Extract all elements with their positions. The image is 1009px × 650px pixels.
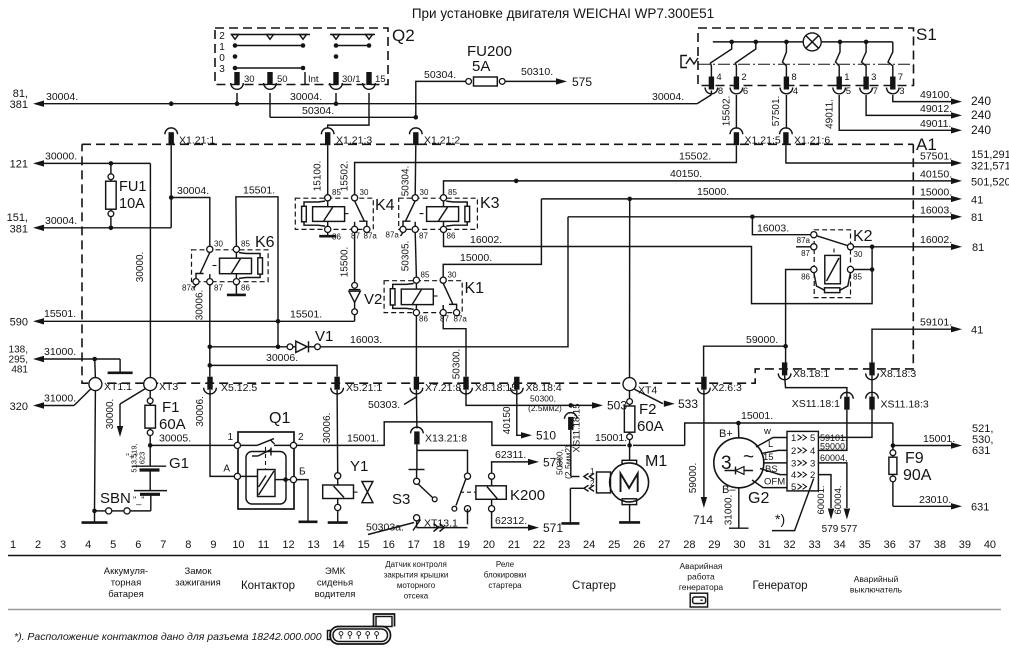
wire XS11.18:1 down: [818, 410, 847, 451]
svg-text:15000.: 15000.: [697, 186, 729, 198]
S1 coupling dash-dot: [698, 63, 914, 65]
svg-text:10: 10: [232, 539, 244, 551]
connector X8.18:1: [782, 362, 787, 375]
svg-text:2: 2: [219, 31, 225, 42]
svg-text:50300.: 50300.: [451, 349, 462, 380]
svg-text:X1.21:5: X1.21:5: [745, 135, 781, 147]
svg-text:w: w: [763, 426, 771, 437]
Q1 coil: [258, 470, 276, 497]
svg-text:31000.: 31000.: [724, 495, 735, 526]
wire 16003 to K2.87a: [752, 217, 810, 235]
svg-text:X13.21:8: X13.21:8: [425, 433, 467, 445]
wire 50303: [415, 390, 418, 429]
wire 15502 to K4.30: [355, 145, 737, 194]
svg-text:16: 16: [383, 539, 395, 551]
connector X13.21:8: [414, 431, 419, 444]
K2 pin 87: [811, 244, 817, 250]
relay K200 contact: [464, 473, 470, 479]
S1 terminal 5 pin 3/7: [863, 77, 868, 90]
svg-text:закрытия крышки: закрытия крышки: [384, 571, 449, 580]
K2 link dash: [833, 249, 835, 256]
wire XT1.1 down: [94, 391, 97, 511]
svg-text:BS: BS: [765, 464, 778, 475]
svg-text:49011.: 49011.: [920, 118, 951, 130]
connector XT13.1: [416, 521, 418, 528]
K1 pin 87: [440, 310, 446, 316]
K3 pin 87a: [400, 226, 406, 232]
svg-text:62311.: 62311.: [495, 449, 526, 461]
wire B+ to G2: [737, 423, 739, 438]
svg-text:87a: 87a: [386, 231, 400, 240]
svg-text:714: 714: [693, 513, 713, 527]
wire 59000 to X2.6:3: [704, 346, 786, 376]
wire 15501 to K6.85: [236, 197, 278, 321]
svg-text:5: 5: [846, 86, 851, 97]
wire 50300 X8.18:15 to 503: [466, 390, 592, 406]
svg-text:1: 1: [227, 432, 233, 443]
svg-text:5: 5: [110, 539, 116, 551]
svg-text:2: 2: [741, 72, 746, 83]
S1 terminal 2 pin 2/6: [734, 77, 739, 90]
svg-text:батарея: батарея: [108, 589, 144, 600]
svg-text:510: 510: [536, 429, 556, 443]
svg-text:(2.5мм2): (2.5мм2): [528, 403, 562, 413]
wire 50300 to M1 pin1: [570, 430, 572, 477]
svg-text:30004.: 30004.: [177, 185, 209, 197]
svg-text:26: 26: [633, 539, 645, 551]
ground M1: [629, 505, 631, 523]
bottom rule 2: [8, 609, 1001, 611]
svg-text:XS11.18:3: XS11.18:3: [881, 399, 929, 411]
svg-text:X8.18:1: X8.18:1: [793, 368, 829, 380]
connector drawing 18242: [330, 627, 391, 645]
K6 coil and resistor: [220, 258, 252, 274]
svg-text:торная: торная: [111, 578, 142, 589]
svg-text:K3: K3: [480, 195, 500, 212]
svg-text:1: 1: [590, 467, 595, 476]
svg-text:30006.: 30006.: [266, 352, 298, 364]
wire 30000: [33, 160, 44, 166]
Q1 link dash: [265, 447, 267, 469]
svg-text:генератора: генератора: [679, 582, 724, 592]
wire X8.18:1 to XS11.18:1: [785, 375, 847, 396]
svg-text:стартера: стартера: [488, 581, 522, 590]
svg-text:XT1.1: XT1.1: [104, 381, 132, 393]
unit A1 dashed box: [82, 144, 913, 383]
svg-text:87a: 87a: [364, 232, 378, 241]
switch Q2 box: [215, 28, 388, 85]
wire 15100 X1.21:3 to K4.85: [327, 145, 329, 195]
wire 15500 K4.87 to V2: [354, 233, 356, 283]
wire 57501 S1-3 to X1.21:6: [785, 95, 787, 129]
svg-text:16002.: 16002.: [470, 234, 502, 246]
wire 62312 output 571: [492, 512, 528, 528]
K4 switch blade: [355, 201, 365, 221]
K6 pin 30: [207, 246, 213, 252]
K2 pin 30: [847, 244, 853, 250]
Q1 pin B: [290, 477, 296, 483]
ground Q1.B: [297, 480, 308, 522]
svg-text:40150.: 40150.: [502, 404, 513, 435]
Q1 pin 2: [290, 442, 296, 448]
svg-text:50310.: 50310.: [521, 66, 553, 78]
relay K2 box: [814, 230, 850, 298]
K2 pin 86: [811, 266, 817, 272]
svg-text:36: 36: [884, 539, 896, 551]
svg-text:31: 31: [758, 539, 770, 551]
svg-text:K200: K200: [510, 487, 545, 504]
svg-text:15501.: 15501.: [243, 185, 275, 197]
wire 59000 down 714: [703, 390, 705, 497]
connector X1.21:2: [413, 132, 418, 145]
K6 pin87a stub: [194, 285, 197, 289]
svg-text:30006.: 30006.: [195, 396, 206, 427]
svg-text:240: 240: [971, 108, 991, 122]
svg-text:31000.: 31000.: [44, 393, 76, 405]
terminal XT4: [623, 378, 636, 391]
svg-text:моторного: моторного: [397, 581, 436, 590]
S1 switch blade 6: [888, 42, 893, 77]
svg-text:85: 85: [853, 273, 862, 282]
svg-text:FU1: FU1: [119, 179, 146, 195]
S1 switch blade 2: [735, 42, 755, 77]
svg-text:водителя: водителя: [315, 589, 356, 600]
svg-text:X1.21:3: X1.21:3: [336, 135, 372, 147]
connector X5.12.5: [207, 377, 212, 390]
G2 terminal OFM: [752, 480, 787, 488]
svg-text:Q2: Q2: [392, 26, 415, 45]
svg-text:1: 1: [844, 72, 849, 83]
K1 switch blade: [443, 283, 453, 304]
Q2 terminal 30/1: [333, 72, 338, 85]
svg-text:27: 27: [658, 539, 670, 551]
K3 link dash: [420, 213, 427, 215]
K2 switch blade: [817, 236, 848, 246]
svg-text:151,291,: 151,291,: [971, 149, 1009, 161]
Q2 row 3 contacts: [235, 67, 303, 69]
S1 internal bus: [713, 41, 893, 43]
svg-text:XS11.18:15: XS11.18:15: [572, 404, 583, 453]
wire 30006 line: [210, 365, 337, 376]
svg-text:X2.6:3: X2.6:3: [712, 382, 743, 394]
svg-text:57501.: 57501.: [920, 151, 952, 163]
starter M1: [629, 445, 631, 460]
K3 pin 86: [440, 226, 446, 232]
S1 terminal 1 pin 4/8: [709, 77, 714, 90]
S1 E-bracket: [681, 56, 687, 68]
svg-text:60004.: 60004.: [833, 485, 844, 514]
svg-text:15501.: 15501.: [44, 308, 76, 320]
K200 coil top pin: [489, 473, 495, 479]
ground at 31000: [119, 359, 121, 372]
K6 pin 87a: [193, 279, 199, 285]
svg-text:481: 481: [11, 365, 28, 376]
connector X1.21:1: [169, 132, 174, 145]
svg-text:"+": "+": [126, 452, 138, 462]
fuse F9: [890, 450, 896, 456]
svg-text:501,520: 501,520: [971, 177, 1009, 189]
svg-text:15502.: 15502.: [340, 161, 351, 192]
svg-text:16003.: 16003.: [350, 334, 382, 346]
wire 30004 lower-left: [33, 225, 44, 231]
svg-text:7: 7: [160, 539, 166, 551]
svg-text:2: 2: [791, 446, 796, 457]
K2 pin 87a: [811, 232, 817, 238]
wire 15502 S1-2 to X1.21:5: [735, 95, 737, 129]
svg-text:3: 3: [60, 539, 66, 551]
terminal XT1.1: [94, 359, 97, 378]
svg-text:выключатель: выключатель: [850, 585, 903, 595]
ground bottom left: [94, 511, 96, 523]
svg-text:571: 571: [543, 521, 563, 535]
wire 16003 V1 line: [321, 217, 569, 347]
svg-text:20: 20: [483, 539, 495, 551]
svg-text:V2: V2: [364, 291, 382, 308]
K2 coil leads: [814, 273, 825, 291]
connector XS11.18:3: [869, 397, 874, 410]
svg-text:30/1: 30/1: [342, 74, 361, 85]
wire 30006 X5.21:1 to Y1: [336, 390, 339, 473]
K6 switch blade: [200, 252, 210, 273]
diode V2: [352, 283, 358, 289]
svg-text:30000.: 30000.: [45, 151, 77, 163]
wire 533 output: [634, 389, 663, 404]
svg-text:151,: 151,: [7, 212, 28, 224]
svg-text:11: 11: [258, 539, 269, 551]
svg-text:30000.: 30000.: [135, 252, 146, 283]
svg-text:87: 87: [440, 315, 449, 324]
svg-text:59101.: 59101.: [920, 317, 952, 329]
wire K2.85 link: [854, 269, 873, 271]
wire 30000 XT3 tap: [120, 389, 145, 404]
svg-text:3: 3: [871, 72, 876, 83]
wire 40150: [444, 181, 952, 195]
svg-text:Замок: Замок: [185, 566, 213, 577]
wire 30004 branch to K6.30: [171, 198, 210, 247]
svg-text:Y1: Y1: [350, 458, 368, 475]
svg-text:3: 3: [899, 86, 904, 97]
K6 pin 85: [233, 246, 239, 252]
svg-text:16003.: 16003.: [757, 223, 789, 235]
K1 pin 86: [413, 310, 419, 316]
svg-text:86: 86: [801, 273, 810, 282]
wire 15000 to K1.30: [443, 199, 541, 277]
icon generator emergency: [690, 593, 707, 607]
svg-text:X5.12.5: X5.12.5: [221, 382, 257, 394]
K6 pin 86: [233, 279, 239, 285]
svg-text:3: 3: [219, 64, 225, 75]
starter M1 connector: [597, 472, 611, 493]
G2 pin block: [787, 431, 818, 491]
relay K1 box: [384, 281, 462, 313]
wire 30006 K6.87 to X5.12.5: [209, 285, 211, 377]
svg-text:15001.: 15001.: [595, 432, 627, 444]
svg-text:XT3: XT3: [159, 381, 178, 393]
G2 terminal BS: [760, 469, 787, 475]
svg-text:Аварийный: Аварийный: [854, 574, 899, 584]
svg-text:320: 320: [10, 401, 28, 413]
svg-text:30000.: 30000.: [105, 399, 116, 430]
wire 50304 from Q2-50: [269, 93, 271, 117]
wire 30004 main: [33, 101, 44, 107]
svg-text:F9: F9: [905, 450, 924, 467]
svg-text:60A: 60A: [637, 418, 664, 435]
svg-text:15000.: 15000.: [920, 187, 952, 199]
svg-text:K2: K2: [853, 228, 873, 245]
svg-text:3: 3: [810, 458, 815, 469]
svg-text:49011.: 49011.: [825, 99, 836, 129]
S1 switch blade 1: [710, 42, 731, 77]
wire M1 pin2 ground: [570, 487, 583, 489]
svg-text:XT4: XT4: [638, 385, 657, 397]
K6 link dash: [213, 265, 220, 267]
wire X13.21:8 down: [416, 444, 418, 450]
svg-text:S1: S1: [916, 25, 937, 44]
svg-text:15000.: 15000.: [460, 252, 492, 264]
wire 62311 output 571: [492, 462, 528, 473]
svg-text:30004.: 30004.: [45, 215, 77, 227]
svg-text:60A: 60A: [159, 416, 186, 433]
svg-text:отсека: отсека: [404, 592, 429, 601]
wire 15001 right part: [633, 444, 685, 446]
svg-text:X1.21:1: X1.21:1: [179, 135, 215, 147]
svg-text:M1: M1: [645, 453, 667, 470]
svg-text:30: 30: [854, 250, 863, 259]
svg-text:49012.: 49012.: [920, 103, 952, 115]
connector X5.21:1: [334, 377, 339, 390]
wire 16003 main: [568, 216, 951, 218]
K200 coil bottom pin: [489, 506, 495, 512]
svg-text:7: 7: [873, 86, 878, 97]
connector X8.18:15: [463, 377, 468, 390]
svg-text:"_": "_": [133, 495, 144, 505]
K1 pin 87a: [454, 310, 460, 316]
G2 terminal 15: [764, 462, 787, 464]
svg-text:15501.: 15501.: [290, 309, 322, 321]
svg-text:59000.: 59000.: [746, 334, 778, 346]
K2 pin87 tick: [796, 246, 811, 248]
relay K4 box: [295, 198, 373, 229]
svg-text:8: 8: [185, 539, 191, 551]
svg-text:G2: G2: [748, 490, 769, 507]
S1 switch blade 5: [862, 42, 867, 77]
svg-text:15001.: 15001.: [347, 433, 379, 445]
connector XS11.18:15: [568, 417, 573, 430]
svg-text:49100.: 49100.: [920, 89, 952, 101]
svg-text:50305.: 50305.: [401, 241, 412, 272]
svg-text:8: 8: [791, 72, 796, 83]
fuse FU200: [466, 79, 472, 85]
svg-text:575: 575: [572, 75, 592, 89]
wire 50304 to FU200: [416, 81, 466, 117]
svg-text:16003.: 16003.: [920, 205, 952, 217]
svg-text:38: 38: [934, 539, 946, 551]
wire 59000 K2.86: [786, 270, 811, 367]
relay K200 coil: [476, 486, 506, 500]
K1 pin 30: [440, 277, 446, 283]
connector X8.18:3: [869, 362, 874, 375]
svg-text:86: 86: [447, 232, 456, 241]
wire 30000 vertical to XT3: [149, 163, 151, 377]
svg-text:50303а.: 50303а.: [366, 522, 404, 534]
svg-text:4: 4: [793, 86, 798, 97]
wire 50305 K3.87 to K1.85: [415, 233, 416, 278]
svg-text:50: 50: [277, 74, 288, 85]
wire 49100 S1-6: [893, 95, 951, 102]
svg-text:15: 15: [375, 74, 386, 85]
K3 pin 87: [412, 226, 418, 232]
wire XS11.18:3 down: [818, 410, 872, 438]
wire 15501 main: [33, 318, 44, 324]
wire 31000 lower: [33, 402, 44, 408]
svg-text:3: 3: [791, 458, 796, 469]
svg-text:50304.: 50304.: [302, 105, 334, 117]
svg-text:SBN: SBN: [100, 490, 131, 507]
svg-text:Контактор: Контактор: [241, 580, 295, 592]
svg-text:K6: K6: [255, 234, 275, 251]
fuse FU1: [110, 163, 112, 173]
svg-text:Реле: Реле: [496, 560, 515, 569]
svg-text:2: 2: [35, 539, 41, 551]
Q1 pin 1: [234, 442, 240, 448]
svg-text:8: 8: [718, 86, 723, 97]
svg-text:30: 30: [360, 188, 369, 197]
svg-text:2: 2: [590, 479, 595, 488]
wire to K200 contact: [417, 450, 468, 473]
svg-text:Int: Int: [308, 74, 319, 85]
svg-text:30: 30: [420, 188, 429, 197]
wire 23010 output 631: [893, 505, 951, 507]
svg-text:15: 15: [763, 452, 774, 463]
wire 50304 X1.21:2 to K3.30: [414, 145, 417, 195]
svg-text:X8.18:4: X8.18:4: [526, 382, 562, 394]
connector X7.21:8: [414, 377, 419, 390]
svg-text:4: 4: [85, 539, 91, 551]
svg-text:Аварийная: Аварийная: [679, 561, 722, 571]
svg-text:Датчик контроля: Датчик контроля: [385, 560, 447, 569]
svg-text:631: 631: [972, 445, 990, 457]
Q2 row 0 contacts: [233, 54, 238, 59]
svg-text:34: 34: [834, 539, 846, 551]
svg-text:5: 5: [791, 482, 796, 493]
svg-text:87: 87: [351, 232, 360, 241]
svg-text:87: 87: [801, 249, 810, 258]
Q2 terminal 15: [366, 72, 371, 85]
svg-text:14: 14: [333, 539, 345, 551]
svg-text:0: 0: [219, 53, 225, 64]
svg-text:57501.: 57501.: [771, 96, 782, 127]
contactor Q1 box: [238, 432, 294, 509]
svg-text:577: 577: [841, 524, 858, 535]
svg-text:240: 240: [971, 94, 991, 108]
K6 pin 87: [207, 279, 213, 285]
wire 15000 to XT4: [629, 199, 631, 378]
valve Y1 coil: [337, 479, 339, 485]
svg-text:блокировки: блокировки: [484, 571, 527, 580]
wire 15001: [297, 422, 626, 446]
svg-text:4: 4: [810, 446, 815, 457]
svg-text:33: 33: [808, 539, 820, 551]
svg-text:30004.: 30004.: [46, 91, 78, 103]
svg-text:5A: 5A: [472, 58, 490, 75]
svg-text:ЭМК: ЭМК: [325, 566, 346, 577]
K4 coil and resistor: [313, 207, 345, 222]
svg-text:40: 40: [984, 539, 996, 551]
valve Y1 top pin: [335, 473, 341, 479]
svg-text:4: 4: [791, 470, 796, 481]
Q1 aux contact: [252, 455, 258, 457]
K2 coil: [825, 255, 841, 283]
